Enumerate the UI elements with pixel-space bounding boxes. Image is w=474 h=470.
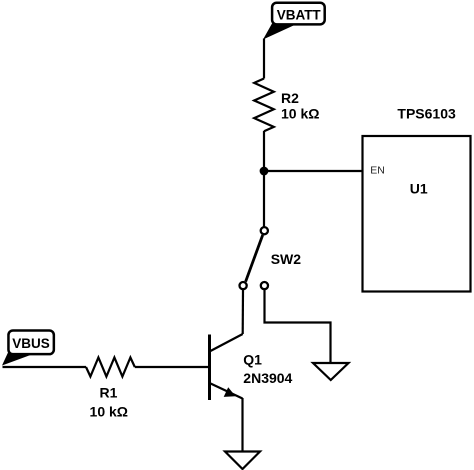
resistor R2 (254, 79, 274, 132)
wire VBATT to R2 (263, 39, 265, 79)
switch SW2 right throw terminal (261, 282, 268, 289)
wire node to EN pin (264, 170, 362, 172)
switch SW2 left throw terminal (240, 282, 247, 289)
net flag VBUS (2, 330, 54, 365)
switch SW2 blade (246, 235, 263, 282)
ground (right) (313, 363, 349, 380)
node junction (260, 167, 269, 176)
svg-text:10 kΩ: 10 kΩ (281, 106, 319, 122)
net flag VBATT (263, 3, 325, 40)
transistor Q1 base bar (208, 335, 211, 401)
transistor Q1 collector (210, 334, 243, 352)
ground (emitter) (225, 452, 260, 470)
svg-text:U1: U1 (410, 181, 428, 197)
wire VBUS to R1 (3, 366, 87, 368)
wire R2 to SW2 (263, 131, 265, 227)
svg-text:Q1: Q1 (243, 352, 262, 368)
svg-text:TPS6103: TPS6103 (397, 105, 456, 121)
wire left throw to Q1 collector (242, 290, 245, 334)
svg-text:VBATT: VBATT (277, 8, 322, 23)
svg-text:R1: R1 (100, 385, 118, 401)
svg-text:SW2: SW2 (271, 251, 302, 267)
wire R1 to Q1 base (135, 366, 208, 368)
wire emitter to ground (241, 398, 243, 451)
svg-text:R2: R2 (281, 90, 299, 106)
resistor R1 (86, 358, 135, 377)
svg-text:10 kΩ: 10 kΩ (90, 404, 128, 420)
IC U1 box (363, 136, 471, 292)
switch SW2 common terminal (261, 227, 268, 234)
svg-text:VBUS: VBUS (12, 336, 50, 351)
svg-text:EN: EN (370, 165, 385, 177)
transistor Q1 emitter with arrow (210, 383, 243, 399)
wire right throw to ground (265, 290, 331, 363)
svg-text:2N3904: 2N3904 (243, 370, 292, 386)
